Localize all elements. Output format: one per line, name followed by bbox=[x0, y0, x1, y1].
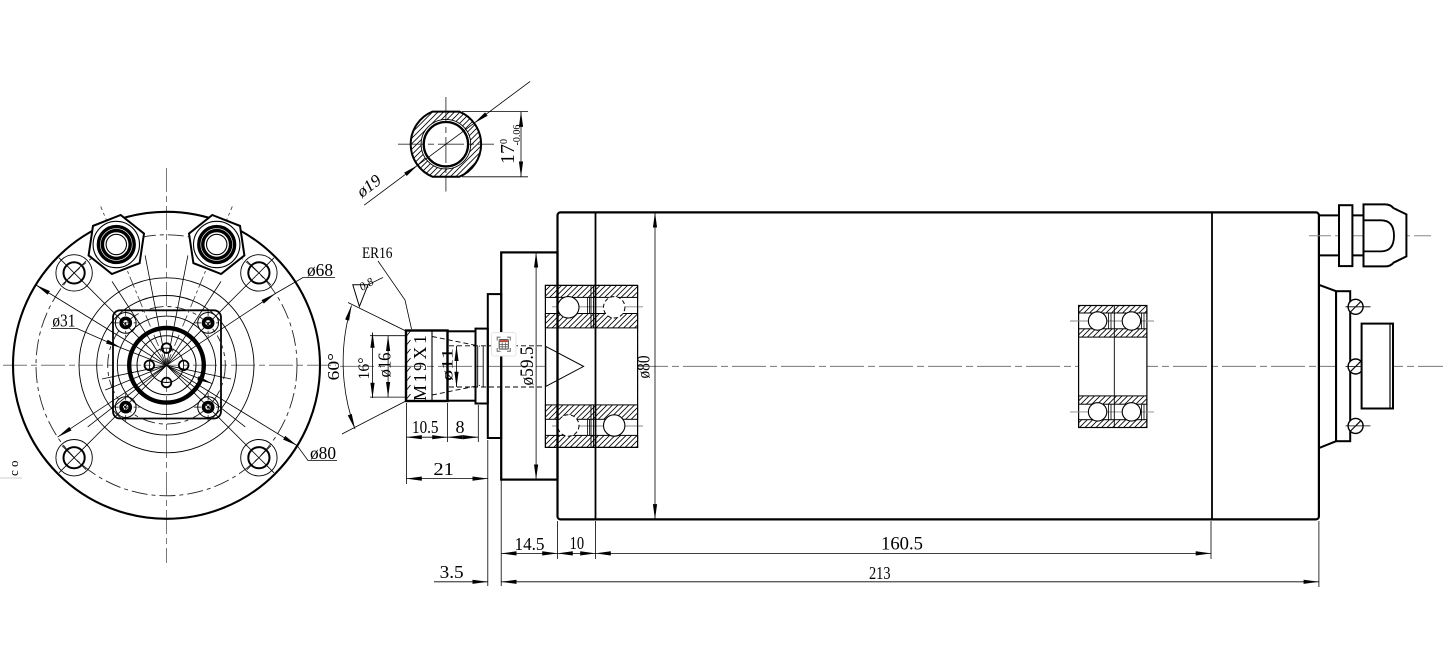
front bearing seal notches bbox=[588, 297, 590, 435]
svg-text:ø31: ø31 bbox=[52, 311, 75, 331]
svg-text:160.5: 160.5 bbox=[881, 534, 923, 555]
front bearing hatch bands bbox=[545, 285, 637, 297]
60deg extension line bottom bbox=[342, 401, 407, 435]
main axis centerline bbox=[340, 365, 1443, 367]
svg-text:213: 213 bbox=[869, 563, 891, 583]
flange outer circle Ø80 bbox=[13, 212, 320, 519]
Ø19 diagonal leader bbox=[364, 165, 418, 205]
cable gland dome nut body bbox=[1364, 204, 1407, 266]
svg-text:ø11: ø11 bbox=[440, 348, 457, 381]
stator bore hidden line bbox=[637, 285, 639, 447]
connector inner thin circle bbox=[137, 336, 196, 395]
Ø16 extension lines bbox=[370, 335, 406, 337]
svg-text:16°: 16° bbox=[356, 358, 373, 380]
rear bearing seal notches bbox=[1109, 313, 1145, 420]
cable gland locknut bbox=[1339, 205, 1352, 266]
watermark image placeholder icon bbox=[492, 333, 517, 357]
rear bearing pair outline bbox=[1079, 306, 1147, 428]
4 counterbored bolt holes on Ø68 bbox=[241, 440, 277, 476]
dimension 14.5 bbox=[501, 552, 557, 554]
svg-text:ø80: ø80 bbox=[634, 356, 654, 379]
ER16 leader bbox=[378, 261, 412, 329]
nose bore circle bbox=[424, 122, 468, 166]
left view horizontal centerline bbox=[3, 364, 336, 366]
left view vertical centerline bbox=[166, 168, 168, 563]
16deg dimension line bbox=[372, 333, 374, 399]
surface roughness symbol 0.8 bbox=[353, 285, 368, 307]
4 plate screws on Ø31 bbox=[112, 309, 140, 337]
water fitting hex nut right bbox=[189, 215, 244, 274]
front bearing pair outline bbox=[545, 285, 637, 447]
rear bearing joint line bbox=[1113, 306, 1115, 428]
collet nut thread ticks bbox=[407, 331, 411, 399]
Ø11 dimension line bbox=[456, 346, 458, 387]
Ø80 leader with arrows bbox=[36, 285, 297, 446]
nose chamfer circle bbox=[421, 119, 471, 169]
Ø80 dimension line bbox=[654, 212, 656, 519]
connector flange circle bbox=[117, 316, 215, 414]
connector body inner edge bbox=[1389, 324, 1391, 409]
17 dimension extension lines bbox=[462, 111, 528, 113]
radial construction lines bbox=[59, 255, 274, 472]
17 dimension line bbox=[520, 112, 522, 177]
60deg dimension arc bbox=[343, 306, 355, 430]
dimension 213 bbox=[501, 581, 1319, 583]
motor body Ø80 bbox=[558, 212, 1319, 519]
connector mounting square plate bbox=[113, 310, 221, 418]
cable gland neck 1 bbox=[1319, 215, 1339, 255]
boss circle inner bbox=[97, 296, 237, 436]
svg-text:ø59.5: ø59.5 bbox=[517, 347, 538, 386]
collet taper hidden lines bbox=[432, 337, 546, 396]
svg-text:c o: c o bbox=[6, 460, 21, 476]
svg-text:3.5: 3.5 bbox=[440, 562, 464, 582]
dimension 10 bbox=[558, 552, 596, 554]
rear cap joint line bbox=[1211, 212, 1213, 519]
front cap joint line bbox=[595, 212, 597, 519]
dimension 3.5 bbox=[434, 581, 488, 583]
collet cap bbox=[448, 331, 476, 400]
Ø68 leader with arrows bbox=[58, 294, 276, 438]
rear cap plate bbox=[1336, 291, 1350, 441]
connector pins bbox=[162, 343, 172, 353]
svg-text:ø80: ø80 bbox=[310, 443, 336, 463]
screw circle Ø31 dash-dot bbox=[108, 307, 226, 425]
cable gland neck 2 bbox=[1352, 215, 1363, 255]
connector body bbox=[1362, 324, 1393, 409]
dimension 10.5 bbox=[407, 436, 448, 438]
svg-text:ER16: ER16 bbox=[362, 245, 393, 262]
nut radial centerlines bbox=[167, 206, 233, 365]
svg-text:8: 8 bbox=[456, 417, 465, 437]
bolt circle Ø68 dash-dot bbox=[36, 235, 297, 496]
cable gland dome inner profile bbox=[1364, 220, 1395, 251]
rear bearing ball center lines bbox=[1070, 320, 1154, 322]
svg-text:21: 21 bbox=[433, 459, 454, 479]
cable gland centerline bbox=[1309, 235, 1431, 237]
nose section hatching bbox=[411, 112, 481, 177]
front flange plate bbox=[488, 294, 501, 438]
dimension 160.5 bbox=[596, 552, 1212, 554]
svg-text:10: 10 bbox=[570, 533, 585, 553]
center connector boss thick circle bbox=[129, 328, 204, 403]
front bearing balls bbox=[558, 297, 579, 318]
nose bore step lines bbox=[478, 346, 484, 387]
rear cap flange trapezoid bbox=[1319, 285, 1336, 448]
Ø31 leader bbox=[51, 329, 121, 348]
extension lines bottom bbox=[407, 403, 1319, 587]
nose outer profile Ø19 with 17 flats bbox=[411, 112, 481, 177]
dimension 8 bbox=[448, 436, 479, 438]
connector screws bbox=[1346, 299, 1371, 314]
svg-text:M19X1: M19X1 bbox=[410, 335, 430, 401]
svg-text:ø16: ø16 bbox=[375, 353, 395, 378]
collet nut M19X1 bbox=[406, 331, 448, 402]
front housing Ø59.5 bbox=[501, 252, 557, 479]
shaft center mark triangle bbox=[546, 346, 584, 386]
60deg extension line top bbox=[348, 303, 407, 332]
nose section crosshair bbox=[398, 143, 494, 145]
rear bearing balls bbox=[1088, 312, 1106, 330]
shaft nose ring bbox=[476, 329, 488, 404]
dimension 21 bbox=[407, 478, 488, 480]
rear bearing hatch bands bbox=[1079, 306, 1147, 314]
Ø16 dimension line bbox=[387, 336, 389, 397]
svg-text:10.5: 10.5 bbox=[412, 417, 439, 437]
svg-text:14.5: 14.5 bbox=[515, 534, 545, 554]
front bearing pair joint lines bbox=[591, 285, 594, 447]
svg-text:ø68: ø68 bbox=[307, 260, 333, 280]
svg-text:60°: 60° bbox=[324, 353, 343, 381]
connector pin circle bbox=[149, 348, 183, 382]
water fitting hex nut left bbox=[89, 215, 144, 274]
front bearing ball center lines bbox=[552, 306, 643, 308]
boss circle outer bbox=[79, 278, 254, 453]
Ø59.5 dimension line bbox=[535, 252, 537, 479]
collet nut face line bbox=[431, 331, 433, 402]
